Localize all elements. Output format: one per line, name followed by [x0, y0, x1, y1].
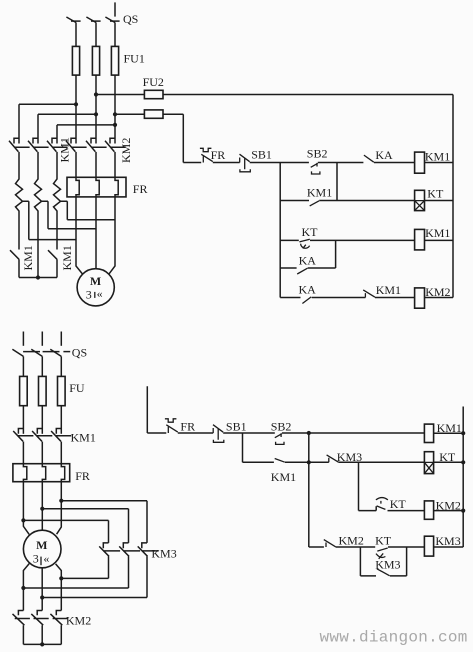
QS supply stub pole3 [60, 332, 62, 346]
contactor KM1 main pole1 [13, 429, 33, 442]
svg-text:FU: FU [69, 381, 85, 395]
motor M2 (3-phase) [23, 530, 61, 568]
svg-text:KM1: KM1 [271, 470, 296, 484]
pushbutton SB1 (NC) [240, 154, 251, 172]
svg-text:KM1: KM1 [425, 149, 450, 163]
contactor KM1 main pole3 [47, 138, 68, 151]
wire KM3 NC to KT coil [338, 461, 424, 463]
wire QS to FU pole1 [22, 356, 24, 376]
time contact KT (delay close) row3 [299, 239, 309, 248]
QS blade pole3 [105, 17, 115, 23]
thermal relay FR box [13, 464, 70, 482]
wire feed line3 to KM3 pole3 [61, 501, 147, 543]
wire KM3 coil to rail [434, 546, 464, 548]
fuse FU1 pole3 [111, 46, 118, 75]
svg-text:KM2: KM2 [66, 614, 91, 628]
fuse FU pole1 [20, 376, 28, 405]
svg-text:FR: FR [133, 182, 148, 196]
contactor KM3 pole2 [119, 543, 140, 556]
fuse FU2 upper [144, 90, 163, 98]
wire FR to motor line3 [109, 197, 115, 274]
svg-text:M: M [36, 538, 47, 552]
node phase1 branch junction [74, 102, 78, 106]
wire KM2 star bar [23, 625, 61, 644]
node main branch [307, 431, 311, 435]
wire KM1 coil2 to rail [425, 239, 454, 241]
wire SB2 to KM1 coil [282, 432, 425, 434]
contactor KM2 main pole1 [66, 138, 87, 151]
wire seal-in branch vertical [242, 433, 244, 462]
wire QS to FU1 phase3 [114, 23, 116, 47]
svg-text:KA: KA [375, 148, 393, 162]
wire branch phase2 to KM1 pole2 [38, 114, 96, 143]
svg-text:SB1: SB1 [251, 147, 272, 161]
wire feed line2 to KM3 pole2 [42, 509, 128, 543]
svg-text:KM1: KM1 [60, 245, 74, 270]
FR heater element 3 [115, 177, 118, 197]
svg-text:KM3: KM3 [375, 557, 400, 571]
wire FU2a to right rail [163, 94, 453, 96]
time relay coil KT [424, 452, 433, 474]
QS tick pole2 [43, 351, 60, 353]
node phase3 branch junction [113, 123, 117, 127]
svg-text:KM1: KM1 [425, 226, 450, 240]
wire FU2b input [115, 113, 144, 115]
wire FU to KM1 pole2 [41, 406, 43, 434]
svg-text:FR: FR [75, 469, 90, 483]
wire KM1 to FR pole2 [41, 442, 43, 464]
svg-text:KM1: KM1 [21, 245, 35, 270]
wire FR to motor line3 [57, 482, 62, 535]
wire control row3 [280, 239, 414, 241]
svg-text:SB2: SB2 [307, 147, 328, 161]
relay contact KA (NO) bypass [297, 268, 307, 274]
svg-text:KT: KT [390, 497, 407, 511]
motor M1 (3-phase) [77, 269, 114, 306]
node phase2/FU2a junction [94, 92, 98, 96]
contactor KM1 star contact right [48, 250, 57, 277]
svg-text:KA: KA [299, 283, 317, 297]
wire SB1 to SB2 [250, 162, 309, 164]
wire FU to KM1 pole3 [60, 406, 62, 434]
wire QS to FU1 phase2 [95, 23, 97, 47]
wire branch phase1 to KM1 pole1 [19, 104, 76, 143]
time relay coil KT [415, 190, 425, 210]
relay contact KA (NO) row1 [364, 155, 374, 162]
wire star bar [19, 277, 57, 279]
FR heater element 2 [96, 177, 99, 197]
coil KM2 [424, 501, 433, 519]
node line2/KM3 feed [40, 507, 44, 511]
pushbutton SB2 (NO) [311, 163, 320, 174]
QS supply stub pole1 [22, 332, 24, 346]
wire tap2 to motor line2 [42, 201, 97, 228]
svg-text:«: « [43, 552, 49, 566]
wire control row2 [243, 461, 329, 463]
svg-text:«: « [97, 287, 103, 301]
node rail row1 [461, 431, 465, 435]
wire FR to motor line1 [23, 482, 29, 535]
node return3 [59, 576, 63, 580]
wire row4 branch vertical [359, 547, 361, 576]
QS tick pole1 [71, 20, 81, 22]
wire tap1 to motor line1 [23, 201, 77, 239]
svg-text:KM3: KM3 [151, 546, 176, 560]
wire control row4 [309, 546, 425, 548]
QS tick pole1 [23, 351, 40, 353]
wire KM1 coil to rail [425, 162, 454, 164]
disconnect switch QS blade pole1 [12, 349, 23, 356]
node return2 [40, 595, 44, 599]
QS blade pole2 [86, 17, 96, 23]
svg-text:SB1: SB1 [226, 420, 247, 434]
contactor KM3 pole1 [99, 543, 120, 556]
contactor KM1 main pole1 [9, 138, 30, 151]
node line1/KM3 feed [21, 518, 25, 522]
wire QS to FU pole2 [41, 356, 43, 376]
svg-text:SB2: SB2 [271, 419, 292, 433]
wire KM2 pole2 to FR [95, 152, 97, 177]
wire FU2b to control line [163, 114, 183, 162]
svg-text:FU2: FU2 [143, 75, 164, 89]
contactor aux contact KM1 (NO) seal-in [275, 459, 285, 463]
wire QS to FU pole3 [60, 356, 62, 376]
wire KT coil to rail [425, 200, 454, 202]
coil KM1 (second) [415, 229, 425, 250]
wire control row4 [280, 297, 365, 299]
contactor KM2 pole2 [31, 611, 48, 626]
svg-text:FU1: FU1 [124, 52, 145, 66]
thermal relay FR box [67, 177, 126, 197]
FR heater element 1 [76, 177, 79, 197]
wire FR to SB1 [178, 432, 213, 434]
node star junction [36, 275, 40, 279]
time contact KT (delay open) row4 [376, 548, 388, 559]
coil KM3 [424, 536, 433, 556]
QS blade pole1 [66, 17, 76, 23]
svg-text:KM2: KM2 [119, 138, 133, 163]
autotransformer winding R1 (zigzag) [16, 152, 23, 250]
svg-text:KM1: KM1 [58, 137, 72, 162]
wire right rail [462, 407, 464, 548]
QS tick pole3 [110, 20, 120, 22]
contactor KM1 main pole2 [32, 429, 52, 442]
svg-text:QS: QS [123, 12, 138, 26]
wire feed line1 to KM3 pole1 [23, 520, 108, 543]
svg-text:KM1: KM1 [71, 431, 96, 445]
wire phase2 FU1 to KM2 pole [95, 75, 97, 143]
wire phase1 FU1 to KM2 pole [75, 75, 77, 143]
contactor aux contact KM2 (NC) [324, 540, 336, 547]
FR heater element 2 [42, 464, 45, 482]
contactor KM2 main pole2 [86, 138, 107, 151]
svg-text:KT: KT [375, 534, 392, 548]
disconnect switch QS blade pole2 [31, 349, 42, 356]
svg-text:KM2: KM2 [339, 534, 364, 548]
wire KM2 coil to rail [425, 297, 454, 299]
contactor aux contact KM1 (NO) row2 [310, 201, 319, 206]
wire FR to motor line2 [41, 482, 43, 531]
wire KM2 coil to rail [434, 510, 464, 512]
coil KM1 [424, 424, 433, 442]
node phase2 branch junction [94, 112, 98, 116]
contactor KM1 main pole2 [28, 138, 49, 151]
autotransformer winding R3 (zigzag) [54, 152, 61, 250]
wire right rail [452, 95, 454, 298]
wire SB2 to KA [318, 162, 364, 164]
fuse FU pole3 [58, 376, 66, 405]
QS tick pole2 [91, 20, 101, 22]
wire control row3 [359, 506, 425, 510]
disconnect switch QS (3-pole) [66, 2, 138, 25]
QS tick pole3 [63, 351, 70, 353]
contactor KM2 pole1 [13, 611, 30, 626]
wire KM1 coil to rail [434, 432, 464, 434]
wire FR to SB1 [213, 162, 240, 164]
contactor KM1 main pole3 [51, 429, 71, 442]
node phase3/FU2b junction [113, 112, 117, 116]
wire row2 branch vertical [358, 462, 360, 510]
node line3/KM3 feed [59, 499, 63, 503]
FR heater element 3 [61, 464, 64, 482]
wire KM1 NC to KM2 coil [375, 297, 415, 299]
node return1 [21, 586, 25, 590]
wire KA bypass row [280, 240, 335, 268]
svg-text:3: 3 [33, 551, 39, 565]
wire control row2 [280, 200, 414, 202]
pushbutton SB2 (NO) [275, 433, 284, 444]
wire FU to KM1 pole1 [22, 406, 24, 434]
wire tap3 to motor line3 [61, 201, 116, 220]
wire control feed left [147, 386, 166, 433]
svg-text:3: 3 [86, 287, 92, 301]
wire FR to motor line2 [95, 197, 97, 269]
autotransformer winding R2 (zigzag) [35, 152, 42, 278]
contactor KM1 star contact left [10, 250, 19, 277]
contactor KM2 main pole3 [105, 138, 126, 151]
wire motor bottom terminal2 [41, 568, 43, 611]
wire phase3 FU1 to KM2 pole [114, 75, 116, 143]
contactor aux contact KM3 (NO) bypass [377, 569, 390, 576]
wire KM2 pole1 to FR [75, 152, 77, 177]
contactor aux contact KM1 (NC) row4 [363, 290, 375, 298]
thermal contact FR (NC) [200, 148, 213, 162]
wire SB1 to SB2 [223, 432, 275, 434]
wire motor bottom terminal3 [56, 564, 62, 611]
node row2 junction [307, 460, 311, 464]
thermal contact FR (NC) [165, 419, 178, 433]
wire FU2a input [96, 94, 144, 96]
node KM2 star junction [40, 642, 44, 646]
wire branch phase3 to KM1 pole3 [57, 125, 115, 144]
pushbutton SB1 (NC) [213, 425, 224, 443]
wire control row1 left [183, 162, 201, 164]
wire seal-in branch vertical [336, 163, 338, 201]
wire KT bypass vertical [406, 547, 408, 576]
coil KM1 [415, 152, 425, 173]
coil KM2 [415, 288, 425, 308]
wire motor bottom terminal1 [23, 564, 29, 611]
time contact KT (delay close) row3 [376, 498, 388, 510]
QS supply stub pole3 [114, 2, 116, 16]
svg-text:KA: KA [299, 254, 317, 268]
contactor aux contact KM3 (NC) [327, 455, 339, 462]
relay contact KA (NO) row4 [302, 297, 311, 304]
svg-text:KM3: KM3 [435, 534, 460, 548]
svg-text:FR: FR [180, 420, 195, 434]
svg-text:FR: FR [211, 148, 226, 162]
wire bypass row5 [360, 575, 406, 577]
wire KM2 pole3 to FR [114, 152, 116, 177]
wire left control column [279, 163, 281, 298]
wire KM3 pole2 return [23, 556, 128, 588]
FR heater element 1 [23, 464, 26, 482]
wire QS to FU1 phase1 [75, 23, 77, 47]
wire KT coil to rail [434, 461, 464, 463]
svg-text:KM1: KM1 [376, 283, 401, 297]
svg-text:QS: QS [72, 345, 87, 359]
svg-text:www.diangon.com: www.diangon.com [320, 629, 468, 647]
fuse FU2 lower [144, 110, 163, 118]
svg-text:KT: KT [427, 186, 444, 200]
fuse FU1 pole2 [92, 46, 99, 75]
wire KA to KM1 coil [374, 162, 415, 164]
svg-text:KM1: KM1 [307, 186, 332, 200]
wire main left column [308, 433, 310, 547]
fuse FU1 pole1 [72, 46, 79, 75]
QS supply stub pole2 [41, 332, 43, 346]
disconnect switch QS blade pole3 [50, 349, 61, 356]
node rail row2 [461, 460, 465, 464]
wire KM3 pole1 return [61, 556, 108, 578]
wire KM3 pole3 return [42, 556, 147, 597]
wire KM1 to FR pole1 [22, 442, 24, 464]
wire KM1 to FR pole3 [60, 442, 62, 464]
wire FR to motor line1 [76, 197, 83, 274]
contactor KM3 pole3 [138, 543, 159, 556]
node rail row3 [461, 509, 465, 513]
svg-text:KT: KT [302, 225, 319, 239]
contactor KM2 pole3 [50, 611, 67, 626]
fuse FU pole2 [39, 376, 47, 405]
